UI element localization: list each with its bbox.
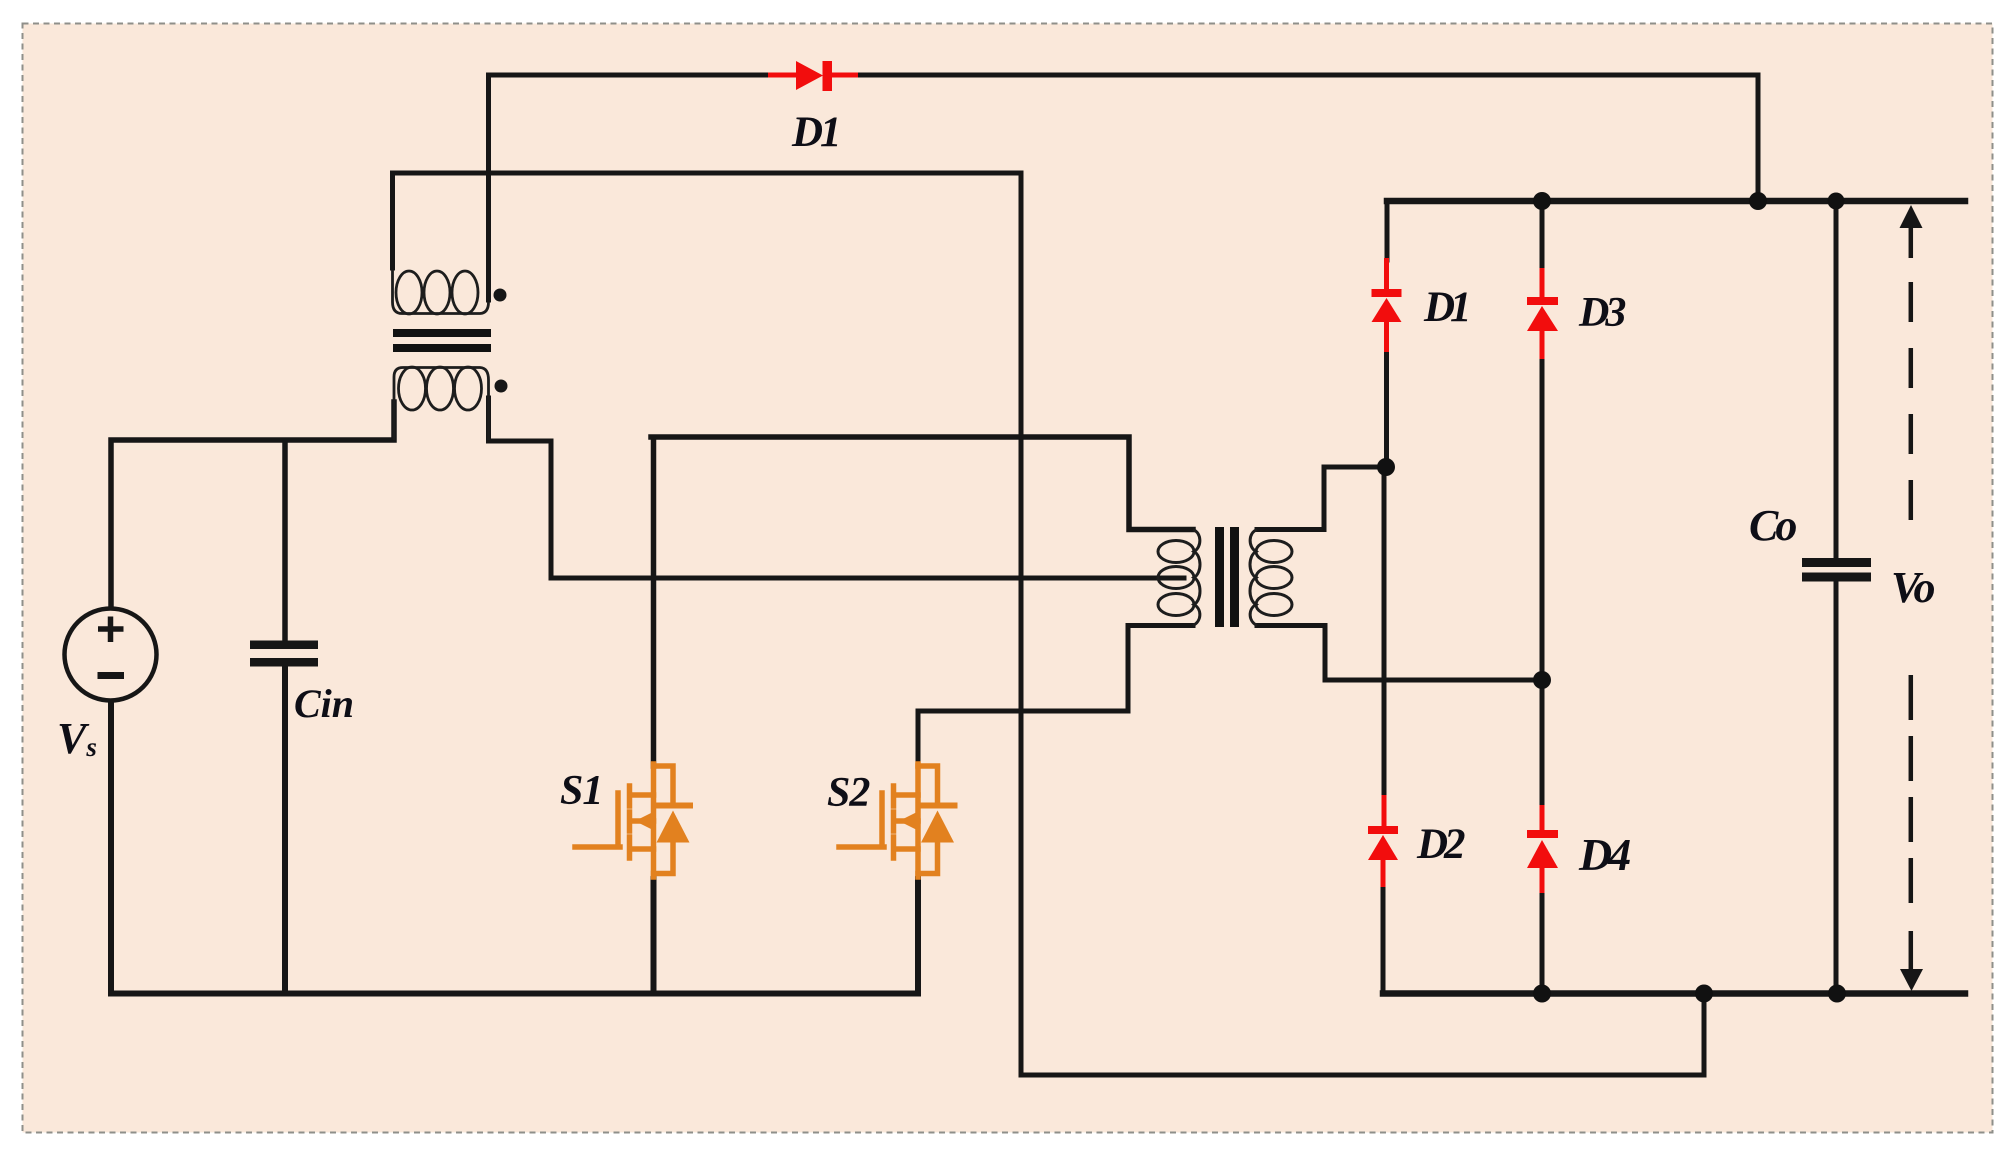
wire Co top lead [1834,201,1839,558]
coupled inductor L1 bottom winding [394,367,489,440]
junction node top bus at Co [1828,193,1845,210]
svg-text:D2: D2 [1416,821,1465,868]
diode D1 top (freewheeling) [768,61,858,91]
wire transformer secondary top lead to D1-D2 midpoint [1257,467,1386,530]
label D1 bridge [1423,284,1468,331]
wire transformer secondary bottom lead to D3-D4 midpoint [1257,626,1542,681]
junction node top bus at D1-rail drop [1749,192,1767,210]
wire Co bottom lead [1834,581,1839,994]
transformer T1 secondary winding [1250,530,1292,626]
svg-text:Vo: Vo [1891,563,1934,612]
label D1 top [791,109,839,156]
capacitor Cin [250,641,318,667]
MOSFET S1 [575,764,690,877]
label Vo [1891,563,1934,612]
capacitor Co [1802,558,1871,582]
svg-text:S2: S2 [827,770,870,816]
junction node secondary-bottom to D3-D4 leg [1533,671,1551,689]
polarity dot top winding [494,289,507,302]
wire Vs top to Cin top to inductor bottom-left lead [111,402,394,640]
wire S2 drain up and across y=711 to transformer primary bottom [918,626,1193,767]
transformer T1 core [1215,527,1239,627]
polarity dot bottom winding [495,380,508,393]
junction node bottom bus at D4 leg [1533,985,1551,1003]
svg-text:D1: D1 [791,109,839,156]
wire rectifier leg D1 top [1385,201,1390,260]
wire D3-D4 leg middle [1540,359,1545,805]
label D3 bridge [1578,290,1625,336]
wire D4 bottom to bus [1540,893,1545,994]
label D4 bridge [1578,829,1630,880]
junction node bottom bus at Co [1828,985,1846,1003]
coupled inductor L1 top winding [393,270,489,314]
wire inductor bottom-right lead to transformer primary center tap [489,398,1185,578]
MOSFET S2 [839,764,955,877]
label Cin [294,681,354,726]
svg-text:S1: S1 [560,768,602,814]
svg-text:Co: Co [1749,501,1796,550]
junction node top bus at D3 leg [1533,192,1551,210]
wire bottom output bus [1383,990,1965,997]
junction node secondary-top to D1-D2 leg [1377,458,1395,476]
label Co [1749,501,1796,550]
diode D4 bridge [1527,805,1558,893]
wire long vertical x=1021 down and bottom return to output bus [1021,173,1704,1075]
svg-text:D4: D4 [1578,829,1630,880]
wire second rail y=173 from inductor left lead to long vertical [393,173,1022,268]
Vo measurement dashed arrow [1900,205,1924,991]
wire S1 drain up, across y=437 and down to transformer primary top [651,437,1193,766]
svg-text:Cin: Cin [294,681,354,726]
label D2 bridge [1416,821,1465,868]
wire top loop: inductor dot end up to D1 rail and down to output bus [489,75,1759,300]
wire top output bus [1387,198,1965,205]
diode D1 bridge [1372,258,1402,352]
svg-text:D3: D3 [1578,290,1625,336]
transformer T1 primary winding [1158,530,1200,626]
diode D2 bridge [1368,795,1398,887]
wire rectifier leg D3 top [1540,201,1545,268]
label S1 [560,768,602,814]
label S2 [827,770,870,816]
coupled inductor core [393,329,491,352]
wire Vs bottom and ground bus left [111,667,918,994]
wire D2 bottom to output return bus [1381,887,1386,994]
diode D3 bridge [1527,268,1558,359]
label Vs [57,714,97,763]
svg-text:D1: D1 [1423,284,1468,331]
junction node bottom bus at return wire [1695,985,1713,1003]
wire D1-D2 leg middle [1384,352,1387,795]
voltage source Vs [65,609,157,701]
